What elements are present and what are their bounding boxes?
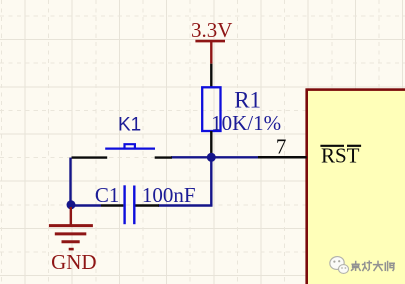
resistor R1 bottom pin <box>210 131 212 155</box>
switch K1 actuator <box>105 144 155 148</box>
svg-text:10K/1%: 10K/1% <box>211 111 281 135</box>
junction node at C1 left <box>67 200 76 209</box>
capacitor C1 left pin <box>101 204 123 206</box>
capacitor C1 right pin <box>136 204 160 206</box>
IC pin 7 line <box>258 156 307 159</box>
watermark text 点灯大师 <box>352 261 395 270</box>
svg-text:100nF: 100nF <box>142 183 196 207</box>
power port 3.3V <box>191 18 232 64</box>
junction node at R1 bottom <box>207 153 216 162</box>
resistor R1 top pin <box>210 64 212 88</box>
svg-text:C1: C1 <box>95 183 120 207</box>
svg-text:7: 7 <box>276 134 287 158</box>
svg-text:3.3V: 3.3V <box>191 18 232 42</box>
IC U1 body <box>307 90 405 284</box>
wire: junction to C1 left pin <box>71 204 101 206</box>
resistor R1 body <box>202 87 220 131</box>
wire: switch right contact to IC pin <box>171 156 258 158</box>
svg-text:R1: R1 <box>234 87 261 112</box>
switch K1 right contact <box>155 156 172 158</box>
svg-text:GND: GND <box>51 250 97 274</box>
capacitor C1 plates <box>125 185 135 224</box>
svg-text:RST: RST <box>321 143 360 167</box>
wire: switch left down to capacitor row <box>69 158 71 205</box>
svg-text:K1: K1 <box>118 114 141 135</box>
switch K1 left contact <box>72 156 108 158</box>
wire: junction down to capacitor right lead <box>158 157 211 205</box>
ground symbol <box>49 207 93 249</box>
watermark logo <box>329 255 349 273</box>
